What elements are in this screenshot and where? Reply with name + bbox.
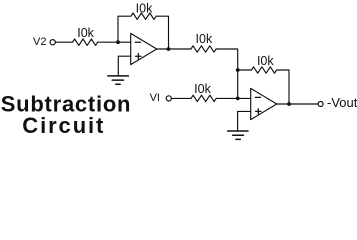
svg-text:-Vout: -Vout bbox=[327, 95, 357, 110]
svg-text:I0k: I0k bbox=[257, 54, 274, 68]
wire feedback loop U1 bbox=[118, 16, 131, 42]
ground GND2 bbox=[228, 131, 248, 139]
resistor R2 10k interstage bbox=[191, 46, 216, 52]
wire feedback loop U2 bbox=[238, 69, 252, 71]
node feedback tap U2 bbox=[236, 68, 240, 72]
svg-text:I0k: I0k bbox=[194, 82, 211, 96]
wire feedback down to U1 output bbox=[156, 16, 168, 49]
wire U2 non-inverting input to ground bbox=[238, 111, 251, 131]
op-amp U2 bbox=[251, 88, 277, 119]
svg-text:Circuit: Circuit bbox=[22, 113, 105, 138]
svg-text:I0k: I0k bbox=[77, 26, 94, 40]
wire R3 to op-amp U2 inverting input bbox=[216, 97, 251, 99]
resistor R3 10k bbox=[191, 95, 216, 101]
wire V2 to R1 bbox=[55, 41, 72, 43]
svg-text:I0k: I0k bbox=[136, 1, 153, 15]
op-amp U1 minus pin mark bbox=[135, 41, 140, 43]
wire R1 to op-amp U1 inverting input bbox=[98, 41, 131, 43]
wire V1 to R3 bbox=[172, 97, 192, 99]
op-amp U2 plus pin mark bbox=[256, 109, 261, 114]
op-amp U2 minus pin mark bbox=[255, 96, 260, 98]
node V2 terminal bbox=[50, 40, 55, 45]
ground GND1 bbox=[108, 76, 129, 84]
node -Vout terminal bbox=[318, 102, 323, 107]
node V1 terminal bbox=[166, 96, 171, 101]
node inverting input U2 bbox=[236, 97, 240, 101]
op-amp U1 bbox=[131, 33, 157, 64]
wire U2 output to terminal bbox=[277, 103, 318, 105]
svg-text:VI: VI bbox=[150, 92, 160, 104]
wire U1 non-inverting input to ground bbox=[118, 56, 130, 76]
op-amp U1 plus pin mark bbox=[136, 54, 141, 59]
wire feedback down to U2 output bbox=[277, 70, 289, 104]
node inverting input U1 bbox=[116, 40, 120, 44]
svg-text:V2: V2 bbox=[33, 36, 46, 48]
node U2 output bbox=[287, 102, 291, 106]
node U1 output bbox=[167, 47, 171, 51]
resistor R1 10k bbox=[73, 39, 98, 45]
resistor Rf2 10k feedback bbox=[251, 67, 276, 73]
resistor Rf1 10k feedback bbox=[131, 13, 156, 19]
wire R2 to U2 inverting input bbox=[216, 49, 238, 98]
wire U1 output bbox=[157, 48, 191, 50]
svg-text:I0k: I0k bbox=[196, 32, 213, 46]
